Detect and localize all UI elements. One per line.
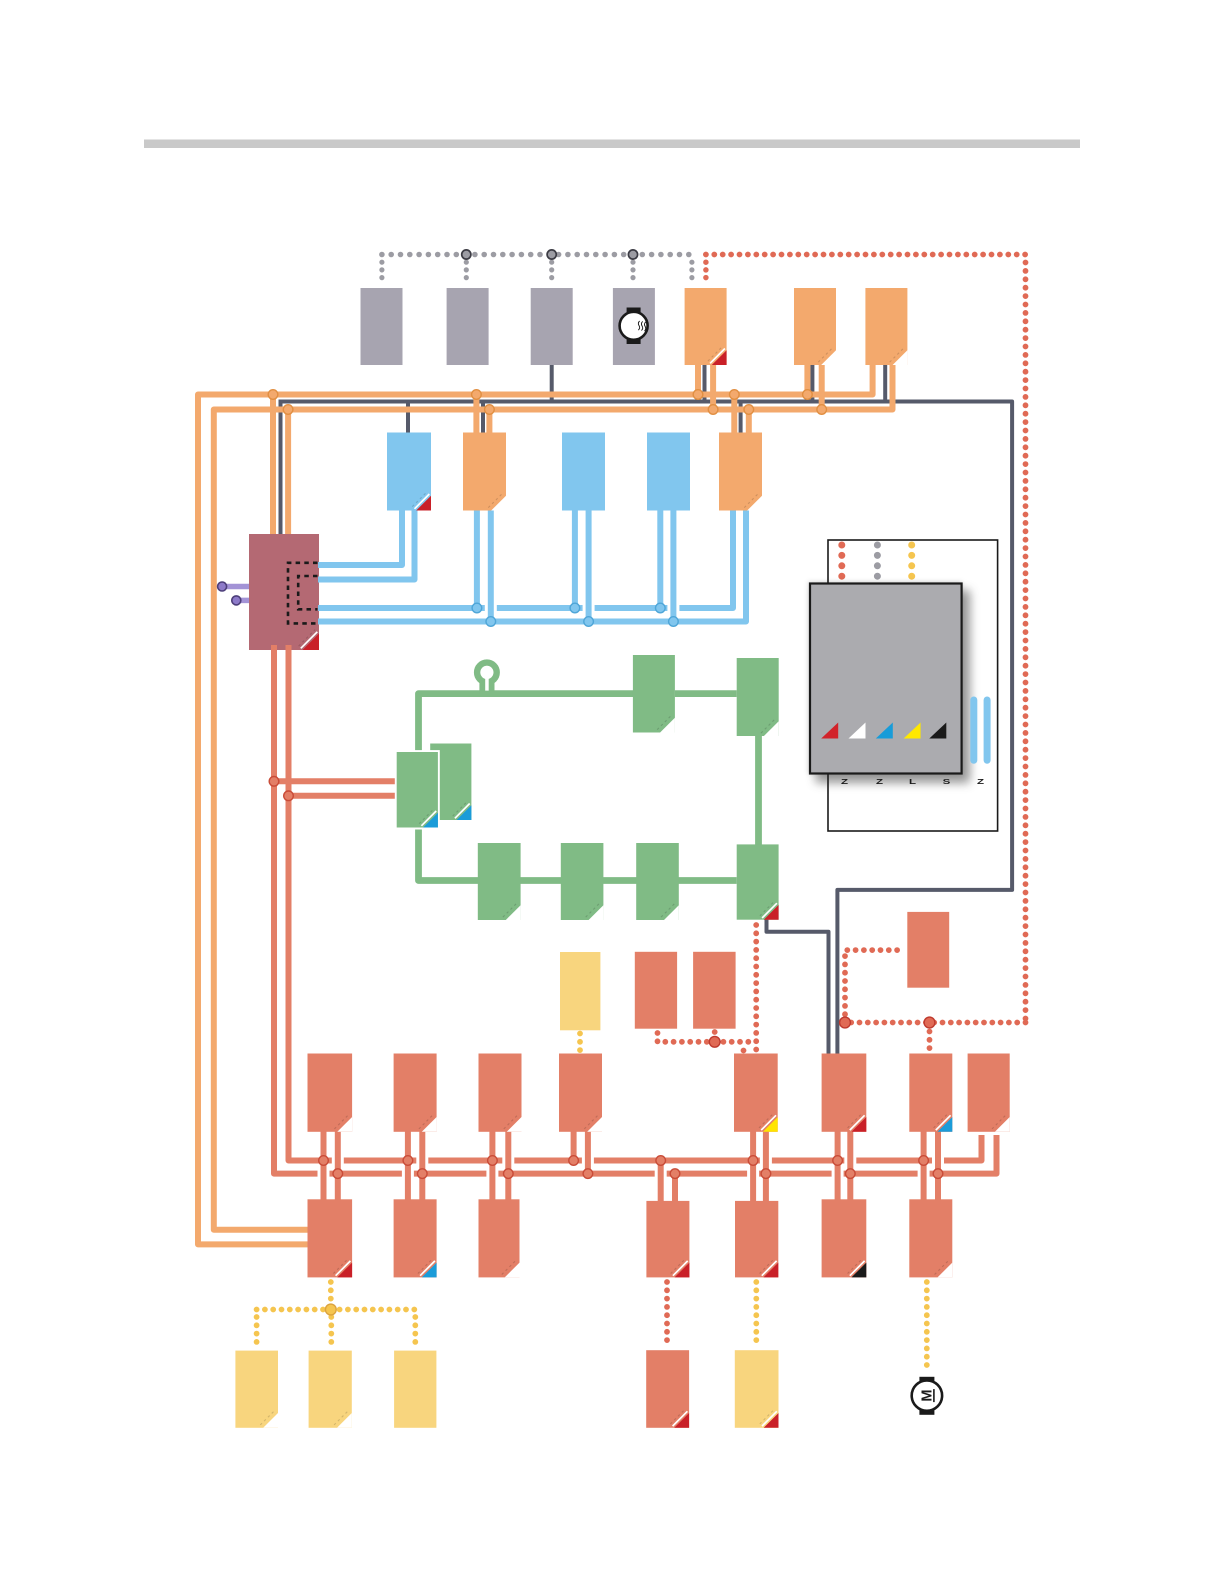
yellow dotted junction	[325, 1304, 336, 1315]
gray box top-3	[531, 288, 573, 365]
gray node dot 1	[462, 250, 471, 259]
blue bus B	[318, 505, 746, 622]
salmon column2 R	[419, 1128, 425, 1203]
red dotted junction c	[709, 1036, 720, 1047]
salmon bus2 junction	[761, 1169, 771, 1179]
salmon box row4-6	[822, 1199, 867, 1277]
legend panel outline	[828, 540, 998, 831]
salmon bus1 junction	[403, 1156, 413, 1166]
salmon junction feed a	[269, 777, 279, 787]
salmon column6 L	[750, 1128, 756, 1204]
salmon bus1 junction	[748, 1156, 758, 1166]
blue box row2-3	[562, 433, 605, 511]
blue drop row2-4 R junction	[669, 617, 679, 627]
orange riser top-2 R junction	[817, 405, 827, 415]
orange drop into controller L junction	[268, 390, 278, 400]
svg-text:Z: Z	[876, 778, 883, 786]
blue drop row2-3 L junction	[570, 603, 580, 613]
salmon box row3-1	[308, 1054, 353, 1132]
slate riser from orange box top-1	[703, 360, 707, 402]
orange box top-3	[865, 288, 907, 365]
blue drop row2-2 L junction	[472, 603, 482, 613]
legend triangle 2	[849, 723, 866, 739]
orange riser top-1 L	[695, 362, 701, 395]
blue drop row2-2 R	[488, 505, 494, 622]
salmon feed to fuser pair b	[289, 793, 401, 799]
gray dotted drop to gray box3	[549, 262, 554, 285]
legend blue bar 2	[984, 700, 991, 760]
gray dotted drop to gray box1	[379, 262, 384, 285]
orange outer loop wire	[198, 362, 873, 1244]
salmon box row3-8	[968, 1054, 1010, 1132]
salmon bus2 junction	[583, 1169, 593, 1179]
orange inner loop wire	[214, 362, 893, 1230]
bus2 gap	[402, 1168, 414, 1179]
blue drop row2-2 L	[474, 505, 480, 608]
blue drop row2-4 L junction	[656, 603, 666, 613]
orange drop row2-2 R junction	[485, 405, 495, 415]
green box bottom-1	[478, 843, 521, 920]
salmon bus2 junction	[333, 1169, 343, 1179]
orange drop into controller R	[285, 410, 291, 546]
salmon box row3-7	[909, 1054, 952, 1132]
yellow box bottom-3	[394, 1351, 436, 1428]
red dotted elbow dot	[741, 1048, 747, 1054]
salmon bus1 junction	[833, 1156, 843, 1166]
legend triangle 4	[904, 723, 921, 739]
salmon column2 L	[405, 1128, 411, 1203]
orange riser top-2 L	[804, 362, 810, 395]
bus1 gap	[502, 1155, 514, 1166]
orange riser top-1 R junction	[708, 405, 718, 415]
svg-text:Z: Z	[977, 778, 984, 786]
header rule bar	[144, 140, 1080, 149]
yellow dotted drop to motor	[924, 1282, 930, 1373]
legend dotted sample red	[838, 545, 845, 577]
gray box top-1	[361, 288, 403, 365]
red dotted lower return run	[845, 1020, 1026, 1026]
red dotted riser from orange box top-1	[703, 262, 709, 285]
orange box top-2	[794, 288, 836, 365]
red dotted junction a	[840, 1017, 851, 1028]
yellow dotted drop from yellow box	[577, 1034, 583, 1052]
purple stub wire 2	[236, 598, 252, 604]
heater motor icon	[620, 308, 648, 345]
bus1 gap	[760, 1155, 772, 1166]
bus2 gap	[918, 1168, 930, 1179]
salmon box row4-1	[308, 1199, 353, 1277]
yellow dotted tree drop 2	[328, 1317, 334, 1346]
salmon column5 L	[658, 1161, 664, 1205]
orange drop row2-5 R junction	[744, 405, 754, 415]
yellow dotted tree trunk	[328, 1282, 334, 1310]
salmon bus2 junction	[670, 1169, 680, 1179]
orange box top-1	[685, 288, 727, 365]
blue wire sensor1 b	[318, 505, 415, 580]
salmon column5 R	[672, 1174, 678, 1204]
slate drop to sensor box row2-1	[406, 402, 410, 439]
yellow mid box	[560, 952, 600, 1030]
gray box top-2	[447, 288, 489, 365]
gray box top-4 (heater motor)	[613, 288, 655, 365]
legend triangle 3	[876, 723, 893, 739]
salmon junction feed b	[284, 791, 294, 801]
salmon column8 R	[935, 1128, 941, 1204]
orange box row2-5	[719, 433, 762, 511]
orange riser top-1 L junction	[693, 390, 703, 400]
transfer salmon box right	[907, 912, 949, 988]
bus gap	[485, 603, 497, 614]
svg-text:L: L	[909, 778, 916, 786]
red dotted link small boxes	[658, 1033, 756, 1042]
salmon box row4-5	[735, 1201, 778, 1278]
yellow dotted tree drop 3	[412, 1317, 418, 1346]
red dotted stub small box b	[712, 1032, 718, 1042]
green box bottom-4	[737, 844, 779, 919]
green latch keyhole	[479, 668, 494, 694]
orange drop into controller R junction	[283, 405, 293, 415]
blue drop row2-4 L	[657, 505, 663, 608]
red dotted top run and right drop	[706, 255, 1026, 1023]
green box bottom-3	[636, 843, 679, 920]
green loop right segment	[755, 734, 762, 846]
salmon bus1 junction	[656, 1156, 666, 1166]
salmon box row3-3	[479, 1054, 522, 1132]
gray dotted drop to gray box2	[464, 262, 469, 285]
orange drop row2-2 R	[486, 410, 492, 439]
bus1 gap	[416, 1155, 428, 1166]
salmon column7 L	[835, 1128, 841, 1204]
orange drop row2-2 L junction	[472, 390, 482, 400]
salmon box row4-2	[394, 1199, 437, 1277]
salmon box row4-4	[646, 1201, 689, 1278]
orange drop row2-5 R	[746, 410, 752, 439]
legend triangle 5	[929, 723, 946, 739]
salmon column4 R	[585, 1128, 591, 1174]
bus1 gap	[582, 1155, 594, 1166]
slate riser from gray box 3	[550, 360, 554, 402]
bus2 gap	[486, 1168, 498, 1179]
legend dotted sample yellow	[908, 545, 915, 577]
salmon drop controller L to lower bus2	[274, 645, 997, 1174]
orange drop into controller L	[270, 395, 276, 546]
salmon column7 R	[847, 1128, 853, 1204]
salmon bus2 junction	[933, 1169, 943, 1179]
salmon bus2 junction	[846, 1169, 856, 1179]
green loop left segment	[419, 694, 737, 881]
yellow box bottom-2	[309, 1351, 352, 1428]
salmon box row3-6	[822, 1054, 867, 1132]
yellow dotted tree drop 1	[254, 1317, 260, 1346]
legend dotted sample gray	[874, 545, 881, 577]
salmon box row4-3	[479, 1199, 520, 1277]
red dotted junction b	[924, 1017, 935, 1028]
legend gray box shadow	[810, 584, 962, 774]
orange drop row2-2 L	[473, 395, 479, 439]
blue box row2-4	[647, 433, 690, 511]
salmon column1 L	[321, 1128, 327, 1203]
salmon bus2 junction	[418, 1169, 428, 1179]
slate riser from orange box top-3	[883, 360, 887, 402]
salmon column1 R	[335, 1128, 341, 1203]
bus gap	[583, 603, 595, 614]
slate drop to feeder box row2-2	[481, 402, 485, 439]
blue drop row2-3 R junction	[584, 617, 594, 627]
green box top-B	[737, 658, 779, 736]
salmon box row4-7	[909, 1199, 952, 1277]
bus2 gap	[318, 1168, 330, 1179]
red dotted drop to bottom duplex box	[664, 1282, 670, 1346]
orange riser top-2 R	[819, 362, 825, 410]
blue wire sensor1 a	[318, 505, 402, 565]
salmon feed to fuser pair a	[274, 778, 400, 784]
blue bus A	[318, 505, 733, 608]
green box pair front outline	[395, 750, 440, 829]
dashed connector bracket outer	[288, 563, 318, 624]
slate stub into controller box	[279, 400, 283, 546]
gray node dot 3	[628, 250, 637, 259]
salmon bus1 junction	[919, 1156, 929, 1166]
salmon column3 R	[505, 1128, 511, 1203]
bus1 gap	[332, 1155, 344, 1166]
salmon box row3-5	[734, 1054, 778, 1132]
orange drop row2-5 L	[731, 395, 737, 439]
salmon column8 L	[921, 1128, 927, 1204]
orange riser top-2 L junction	[803, 390, 813, 400]
small salmon box a	[635, 952, 677, 1029]
salmon column6 R	[763, 1128, 769, 1204]
bus1 gap	[844, 1155, 856, 1166]
small salmon box b	[693, 952, 736, 1029]
dashed connector bracket inner	[298, 576, 317, 609]
slate drop to feeder box row2-5	[739, 402, 743, 439]
red dotted drop from green unit	[753, 925, 759, 1050]
controller box (maroon)	[249, 534, 319, 650]
bus2 gap	[747, 1168, 759, 1179]
motor M1	[912, 1377, 942, 1415]
slate link green unit to lower box	[767, 916, 829, 1054]
orange box row2-2	[463, 433, 506, 511]
slate bus with right-side drop to duplex unit	[281, 402, 1013, 1054]
purple stub wire 1	[222, 584, 252, 590]
blue drop row2-4 R	[670, 505, 676, 622]
gray node dot 2	[547, 250, 556, 259]
salmon bus2 junction	[504, 1169, 514, 1179]
svg-text:S: S	[943, 778, 951, 786]
salmon bus1 junction	[569, 1156, 579, 1166]
yellow box bottom-1	[235, 1351, 278, 1428]
gray dotted drop to gray box4	[630, 262, 635, 285]
salmon column3 L	[489, 1128, 495, 1203]
green box top-A	[633, 655, 675, 733]
salmon column4 L	[571, 1128, 577, 1161]
orange riser top-1 R	[710, 362, 716, 410]
bus2 gap	[832, 1168, 844, 1179]
bus2 gap	[655, 1168, 667, 1179]
salmon bus1 junction	[319, 1156, 329, 1166]
blue drop row2-3 L	[572, 505, 578, 608]
svg-text:Z: Z	[841, 778, 848, 786]
green box pair back	[430, 744, 471, 821]
green loop mid segment	[675, 690, 737, 697]
yellow box bottom-4	[735, 1350, 779, 1428]
blue box row2-1	[387, 433, 431, 511]
orange drop row2-5 L junction	[730, 390, 740, 400]
salmon bus1 junction	[488, 1156, 498, 1166]
gray dotted top bus	[382, 252, 697, 258]
green box bottom-2	[561, 843, 604, 920]
legend triangle 1	[821, 723, 838, 739]
red dotted riser to transfer box	[845, 950, 905, 1022]
salmon box row3-2	[394, 1054, 437, 1132]
blue drop row2-3 R	[586, 505, 592, 622]
yellow dotted drop to bottom yellow box	[753, 1282, 759, 1346]
blue drop row2-2 R junction	[486, 617, 496, 627]
bus1 gap	[932, 1155, 944, 1166]
green box pair front	[397, 752, 438, 828]
salmon drop controller R to lower bus1	[289, 645, 982, 1161]
gray dotted drop to orange box top-1	[689, 262, 694, 285]
yellow dotted tree arms	[257, 1307, 416, 1313]
salmon box row3-4	[559, 1054, 602, 1132]
bus gap	[667, 603, 679, 614]
legend blue bar 1	[970, 700, 977, 760]
salmon box bottom	[646, 1350, 689, 1428]
slate riser from orange box top-2	[810, 360, 814, 402]
red dotted drop to row3 box7	[927, 1032, 933, 1051]
